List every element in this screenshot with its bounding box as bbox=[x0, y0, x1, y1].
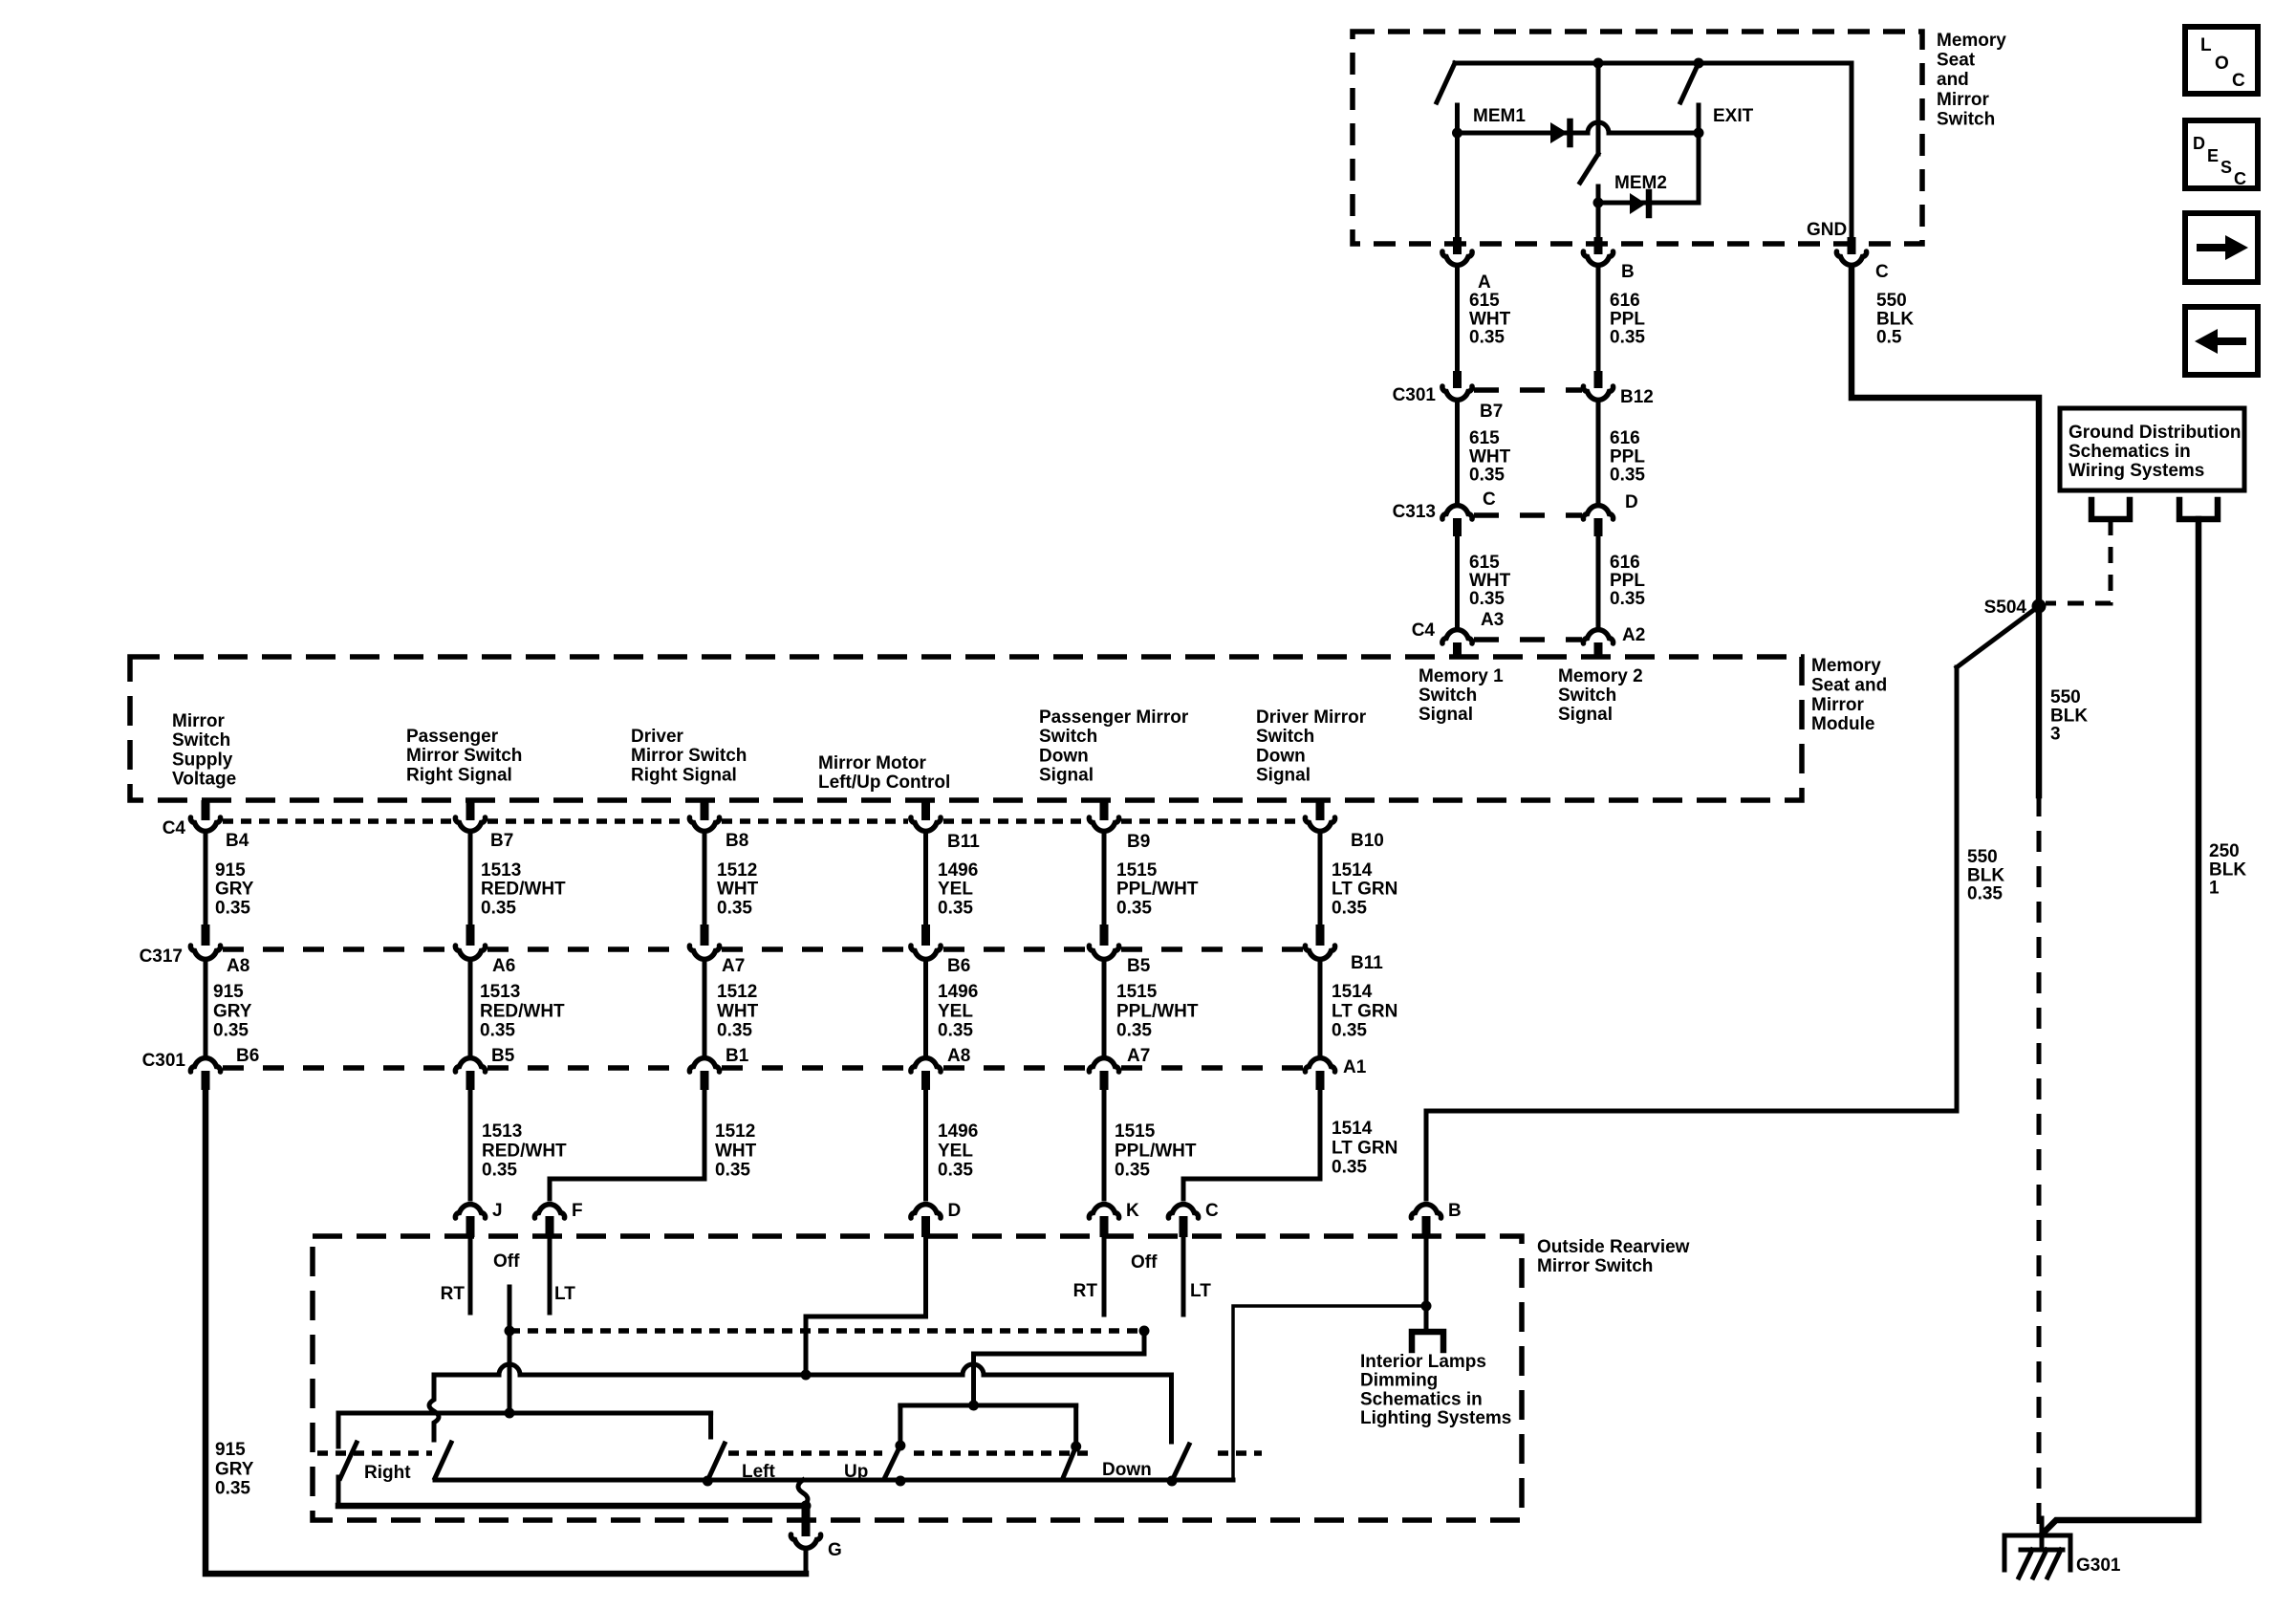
svg-text:RT: RT bbox=[1073, 1281, 1098, 1301]
svg-text:616: 616 bbox=[1610, 291, 1640, 311]
svg-text:Interior Lamps: Interior Lamps bbox=[1360, 1352, 1486, 1372]
svg-text:YEL: YEL bbox=[938, 880, 973, 900]
svg-text:PPL/WHT: PPL/WHT bbox=[1116, 1001, 1199, 1021]
connector C4 cup col3 bbox=[689, 817, 719, 831]
svg-text:Dimming: Dimming bbox=[1360, 1371, 1438, 1391]
stub above C317 col3 bbox=[701, 925, 709, 946]
connector C301 row dashes bbox=[223, 1065, 1303, 1071]
diode D2 triangle bbox=[1630, 193, 1646, 214]
node top bus junction 1 bbox=[1593, 58, 1604, 69]
svg-text:Mirror Switch: Mirror Switch bbox=[631, 746, 747, 766]
svg-text:Mirror Switch: Mirror Switch bbox=[406, 746, 522, 766]
svg-text:616: 616 bbox=[1610, 553, 1640, 573]
wire 550 BLK 0.35 to B cup bbox=[1424, 1111, 1429, 1199]
wire pin A lead bbox=[1455, 136, 1460, 239]
svg-text:1512: 1512 bbox=[717, 860, 757, 881]
svg-text:Ground Distribution: Ground Distribution bbox=[2069, 423, 2241, 443]
node MEM2 junction bbox=[1593, 198, 1604, 208]
svg-text:C4: C4 bbox=[1412, 620, 1436, 641]
svg-text:PPL: PPL bbox=[1610, 446, 1645, 467]
stub below C4-A3 bbox=[1453, 642, 1462, 659]
svg-text:C313: C313 bbox=[1393, 502, 1436, 522]
svg-text:BLK: BLK bbox=[1876, 309, 1914, 329]
diode D1 triangle bbox=[1550, 122, 1568, 143]
svg-text:MEM1: MEM1 bbox=[1473, 106, 1526, 126]
svg-text:S504: S504 bbox=[1984, 598, 2027, 618]
svg-text:PPL: PPL bbox=[1610, 571, 1645, 591]
svg-text:Signal: Signal bbox=[1558, 705, 1613, 725]
svg-text:B11: B11 bbox=[947, 832, 980, 852]
wire line A bbox=[435, 1364, 1172, 1442]
wire top bus bbox=[1455, 61, 1852, 66]
svg-text:B6: B6 bbox=[947, 956, 970, 976]
svg-text:MEM2: MEM2 bbox=[1614, 173, 1667, 193]
mech linkage Up/Down (dashed) bbox=[914, 1450, 1262, 1456]
svg-text:1496: 1496 bbox=[938, 860, 978, 881]
memory seat and mirror switch box (dashed) bbox=[1353, 32, 1922, 244]
svg-text:RED/WHT: RED/WHT bbox=[482, 1141, 567, 1161]
svg-text:E: E bbox=[2207, 146, 2219, 165]
wire line Bp right drop bbox=[1073, 1405, 1078, 1447]
svg-text:WHT: WHT bbox=[715, 1141, 757, 1161]
svg-text:0.35: 0.35 bbox=[1610, 466, 1645, 486]
svg-text:915: 915 bbox=[215, 1440, 246, 1460]
svg-text:Schematics in: Schematics in bbox=[2069, 442, 2191, 462]
wire D to line A bbox=[806, 1237, 926, 1375]
svg-text:B5: B5 bbox=[491, 1046, 515, 1066]
wire 550 BLK 0.35 horizontal to B bbox=[1426, 1109, 1957, 1114]
node Left blade dot bbox=[703, 1476, 713, 1487]
svg-text:0.35: 0.35 bbox=[1469, 328, 1505, 348]
stub below pin F bbox=[546, 1216, 554, 1237]
switch MEM2 contact stub bbox=[1596, 186, 1601, 203]
wire RT2 contact bbox=[1102, 1237, 1107, 1315]
svg-text:Left: Left bbox=[742, 1462, 776, 1482]
wire 615 WHT seg3 bbox=[1455, 536, 1460, 625]
stub below pin B bbox=[1422, 1216, 1431, 1237]
svg-text:A2: A2 bbox=[1622, 625, 1645, 645]
wire LT2 contact bbox=[1181, 1237, 1186, 1315]
svg-text:Switch: Switch bbox=[1558, 685, 1616, 706]
connector C317 cup col4 bbox=[911, 946, 941, 959]
wire col3 C4 to C317 bbox=[703, 836, 707, 925]
wire col1 C4 to C317 bbox=[204, 836, 208, 925]
right arrow nav box bbox=[2185, 213, 2258, 282]
svg-text:B4: B4 bbox=[226, 831, 249, 851]
wire col6 C4 to C317 bbox=[1318, 836, 1323, 925]
pin A stub bbox=[1453, 237, 1462, 254]
connector C313 pin D arc bbox=[1583, 506, 1613, 519]
stub below pin D bbox=[921, 1216, 930, 1237]
svg-text:YEL: YEL bbox=[938, 1141, 973, 1161]
line C common bbox=[435, 1478, 1233, 1483]
connector C301 row dashes (upper) bbox=[1474, 387, 1582, 393]
svg-text:0.35: 0.35 bbox=[1469, 589, 1505, 609]
svg-text:D: D bbox=[2193, 134, 2205, 153]
connector mirror switch pin D arc bbox=[911, 1205, 941, 1218]
pin B stub bbox=[1594, 237, 1603, 254]
switch MEM1 contact stub bbox=[1455, 105, 1460, 136]
svg-text:L: L bbox=[2200, 35, 2212, 55]
svg-text:LT GRN: LT GRN bbox=[1332, 880, 1397, 900]
svg-text:EXIT: EXIT bbox=[1713, 106, 1754, 126]
ground G301 inner bar bbox=[2021, 1548, 2063, 1553]
ground G301 center wire bbox=[2040, 1518, 2045, 1550]
wire S504 diagonal to 550 BLK 0.35 bbox=[1957, 606, 2039, 667]
svg-text:Mirror Switch: Mirror Switch bbox=[1537, 1256, 1653, 1276]
wire center vertical MEM2 feed bbox=[1596, 63, 1601, 154]
ground G301 hatch 2 bbox=[2033, 1550, 2047, 1577]
left arrow icon bbox=[2195, 329, 2246, 354]
wire line B bbox=[338, 1411, 711, 1416]
svg-text:B12: B12 bbox=[1620, 387, 1654, 407]
connector C317 cup col5 bbox=[1089, 946, 1118, 959]
connector C4 row dashes (upper) bbox=[1474, 637, 1582, 642]
node D on line A bbox=[801, 1370, 812, 1381]
wire Off1 contact bbox=[508, 1287, 512, 1413]
wiper pivot left squiggle bbox=[429, 1375, 439, 1440]
stub below C301 col2 bbox=[466, 1071, 475, 1090]
svg-text:J: J bbox=[492, 1201, 503, 1221]
svg-text:0.35: 0.35 bbox=[1332, 1158, 1367, 1178]
wire 1515 PPL/WHT to K bbox=[1102, 1090, 1107, 1199]
svg-text:A8: A8 bbox=[227, 956, 249, 976]
svg-text:and: and bbox=[1937, 70, 1969, 90]
svg-text:C: C bbox=[2232, 71, 2245, 91]
node MEM1 junction bbox=[1452, 128, 1462, 139]
svg-text:0.35: 0.35 bbox=[1967, 884, 2003, 904]
LOC nav box bbox=[2185, 27, 2258, 94]
svg-text:B11: B11 bbox=[1351, 953, 1383, 973]
svg-text:A6: A6 bbox=[492, 956, 515, 976]
wire 1514 LT GRN to C bbox=[1183, 1092, 1320, 1199]
stub module pin col5 bbox=[1100, 800, 1109, 820]
svg-text:0.35: 0.35 bbox=[938, 898, 973, 918]
switch MEM1 blade bbox=[1437, 63, 1455, 102]
node Up blade top dot bbox=[895, 1441, 905, 1451]
svg-text:0.35: 0.35 bbox=[215, 898, 250, 918]
wire 616 PPL seg1 bbox=[1596, 268, 1601, 371]
connector C301 arc col2 bbox=[455, 1058, 485, 1072]
wire col5 C4 to C317 bbox=[1102, 836, 1107, 925]
wire 915 GRY down-left run bbox=[206, 1090, 806, 1574]
wire 616 PPL seg2 bbox=[1596, 402, 1601, 502]
wire dashed bracket1 to S504 bbox=[2046, 519, 2111, 603]
connector C301 arc col1 bbox=[190, 1058, 220, 1072]
svg-text:C4: C4 bbox=[162, 818, 186, 838]
stub below C313-D bbox=[1594, 518, 1603, 536]
outside rearview mirror switch box (dashed) bbox=[313, 1236, 1522, 1520]
stub below pin J bbox=[466, 1216, 475, 1237]
svg-text:1513: 1513 bbox=[481, 860, 521, 881]
svg-text:D: D bbox=[1625, 492, 1638, 512]
wire MEM1 to EXIT (with hop) bbox=[1458, 122, 1700, 133]
mech linkage Right pair (dashed) bbox=[317, 1450, 432, 1456]
svg-text:Off: Off bbox=[493, 1251, 520, 1272]
svg-text:550: 550 bbox=[1967, 847, 1998, 867]
svg-text:D: D bbox=[948, 1201, 962, 1221]
svg-text:0.35: 0.35 bbox=[715, 1161, 750, 1181]
svg-text:1496: 1496 bbox=[938, 982, 978, 1002]
wire line C up to B wire bbox=[1233, 1306, 1426, 1480]
svg-text:Driver: Driver bbox=[631, 727, 684, 747]
connector C301 arc col5 bbox=[1089, 1058, 1118, 1072]
svg-text:B5: B5 bbox=[1127, 956, 1151, 976]
svg-text:Voltage: Voltage bbox=[172, 770, 236, 790]
connector mirror switch pin C arc bbox=[1168, 1205, 1198, 1218]
stub module pin col3 bbox=[701, 800, 709, 820]
svg-text:0.35: 0.35 bbox=[1610, 589, 1645, 609]
svg-text:Seat: Seat bbox=[1937, 51, 1976, 71]
wire LT1 contact bbox=[548, 1237, 552, 1313]
wire col6 C317 to C301 bbox=[1318, 964, 1323, 1055]
wire far left to G line bbox=[336, 1477, 341, 1506]
svg-text:B1: B1 bbox=[726, 1046, 749, 1066]
connector C317 row dashes bbox=[223, 946, 1303, 952]
wire line Bp left drop bbox=[898, 1405, 902, 1446]
connector mirror switch pin B arc bbox=[1411, 1205, 1440, 1218]
pin C stub bbox=[1848, 237, 1856, 254]
svg-text:Lighting Systems: Lighting Systems bbox=[1360, 1408, 1511, 1428]
wire col5 C317 to C301 bbox=[1102, 964, 1107, 1055]
connector C301 arc col3 bbox=[689, 1058, 719, 1072]
svg-text:BLK: BLK bbox=[2209, 859, 2246, 880]
stub below C301 col1 bbox=[202, 1071, 210, 1090]
svg-text:615: 615 bbox=[1469, 291, 1500, 311]
connector bracket 1 (to ground dist) bbox=[2091, 500, 2130, 519]
svg-text:Passenger: Passenger bbox=[406, 727, 499, 747]
svg-text:Right Signal: Right Signal bbox=[631, 765, 737, 785]
node Up on line C bbox=[896, 1476, 906, 1487]
svg-text:LT: LT bbox=[1190, 1281, 1211, 1301]
svg-text:C301: C301 bbox=[1393, 385, 1437, 405]
mech linkage select switches (dashed) bbox=[509, 1328, 1144, 1334]
stub below C301 col3 bbox=[701, 1071, 709, 1090]
svg-text:550: 550 bbox=[2050, 687, 2081, 707]
svg-text:0.35: 0.35 bbox=[1332, 1021, 1367, 1041]
svg-text:C: C bbox=[2234, 169, 2246, 188]
svg-text:C: C bbox=[1205, 1201, 1219, 1221]
ground G301 hatch 3 bbox=[2047, 1550, 2061, 1577]
svg-text:A1: A1 bbox=[1343, 1057, 1367, 1077]
mech linkage Left/Up (dashed) bbox=[728, 1450, 882, 1456]
wire GND vertical bbox=[1850, 63, 1854, 239]
svg-text:1515: 1515 bbox=[1116, 860, 1158, 881]
stub module pin col2 bbox=[466, 800, 475, 820]
stub module pin col1 bbox=[202, 800, 210, 820]
switch Up blade bbox=[884, 1446, 900, 1479]
connector C313 pin C arc bbox=[1442, 506, 1472, 519]
stub below C4-A2 bbox=[1594, 642, 1603, 659]
switch Left blade bbox=[707, 1444, 725, 1481]
connector C317 cup col1 bbox=[190, 946, 220, 959]
connector C4 pin A2 arc bbox=[1583, 630, 1613, 643]
svg-text:Module: Module bbox=[1811, 714, 1875, 734]
svg-text:G: G bbox=[828, 1540, 842, 1560]
svg-text:0.5: 0.5 bbox=[1876, 328, 1902, 348]
stub above C317 col4 bbox=[921, 925, 930, 946]
svg-text:0.35: 0.35 bbox=[215, 1479, 250, 1499]
svg-text:250: 250 bbox=[2209, 841, 2240, 861]
node Off1 mech dot bbox=[505, 1326, 515, 1337]
svg-text:0.35: 0.35 bbox=[938, 1161, 973, 1181]
diode D1 bar bbox=[1567, 121, 1573, 144]
svg-text:1512: 1512 bbox=[715, 1121, 755, 1142]
stub above C317 col1 bbox=[202, 925, 210, 946]
svg-text:550: 550 bbox=[1876, 291, 1907, 311]
svg-text:PPL/WHT: PPL/WHT bbox=[1115, 1141, 1197, 1161]
svg-text:LT GRN: LT GRN bbox=[1332, 1138, 1397, 1158]
wire 550 BLK 0.35 vertical bbox=[1955, 667, 1960, 1111]
wire 1513 RED/WHT to J bbox=[468, 1090, 473, 1199]
svg-text:Mirror Motor: Mirror Motor bbox=[818, 753, 927, 773]
svg-text:YEL: YEL bbox=[938, 1001, 973, 1021]
node Off2 on line Bp bbox=[968, 1401, 979, 1411]
connector C4 cup col1 bbox=[190, 817, 220, 831]
svg-text:0.35: 0.35 bbox=[213, 1021, 249, 1041]
ground G301 right wall bbox=[2069, 1535, 2073, 1570]
connector C317 cup col2 bbox=[455, 946, 485, 959]
wire G cup down to bottom run bbox=[804, 1551, 809, 1574]
svg-text:B7: B7 bbox=[490, 831, 513, 851]
wire 250 BLK 1 bbox=[2042, 519, 2199, 1534]
connector C4 cup col2 bbox=[455, 817, 485, 831]
svg-text:0.35: 0.35 bbox=[1115, 1161, 1150, 1181]
svg-text:Switch: Switch bbox=[1256, 727, 1314, 747]
connector bracket 2 (to ground dist) bbox=[2179, 500, 2218, 519]
ground distribution box bbox=[2060, 408, 2244, 490]
svg-text:615: 615 bbox=[1469, 553, 1500, 573]
node Off2 mech dot bbox=[1139, 1326, 1150, 1337]
svg-text:O: O bbox=[2215, 54, 2229, 74]
right arrow icon bbox=[2197, 235, 2248, 260]
svg-text:Supply: Supply bbox=[172, 750, 233, 770]
svg-text:Down: Down bbox=[1039, 746, 1089, 766]
svg-text:Switch: Switch bbox=[1419, 685, 1477, 706]
wire MEM2 diode row bbox=[1598, 201, 1699, 206]
svg-text:C317: C317 bbox=[140, 946, 183, 967]
svg-text:1514: 1514 bbox=[1332, 982, 1373, 1002]
node Off1 on line B bbox=[505, 1408, 515, 1419]
svg-text:GRY: GRY bbox=[215, 880, 254, 900]
svg-text:A8: A8 bbox=[947, 1046, 970, 1066]
svg-text:Down: Down bbox=[1102, 1460, 1152, 1480]
svg-text:Memory 1: Memory 1 bbox=[1419, 666, 1504, 686]
connector C301 arc col6 bbox=[1305, 1058, 1334, 1072]
connector mirror switch pin F arc bbox=[534, 1205, 564, 1218]
svg-text:B7: B7 bbox=[1480, 402, 1503, 422]
node on B wire bbox=[1421, 1301, 1432, 1312]
stub below pin K bbox=[1100, 1216, 1109, 1237]
svg-text:Signal: Signal bbox=[1256, 766, 1310, 786]
connector C301 pin B12 cup bbox=[1583, 386, 1613, 400]
switch blade far left bbox=[340, 1443, 357, 1478]
svg-text:Memory: Memory bbox=[1937, 31, 2006, 51]
connector pin B cup bbox=[1583, 251, 1613, 265]
svg-text:S: S bbox=[2220, 158, 2232, 177]
svg-text:BLK: BLK bbox=[1967, 865, 2004, 885]
wire G line bbox=[338, 1503, 806, 1510]
connector C313 row dashes bbox=[1474, 512, 1582, 518]
svg-text:A7: A7 bbox=[722, 956, 745, 976]
switch Down right blade bbox=[1172, 1445, 1189, 1481]
connector C317 cup col6 bbox=[1305, 946, 1334, 959]
svg-text:0.35: 0.35 bbox=[938, 1021, 973, 1041]
splice S504 dot bbox=[2032, 599, 2047, 614]
svg-text:1514: 1514 bbox=[1332, 1119, 1373, 1139]
wire col1 C317 to C301 bbox=[204, 964, 208, 1055]
connector C4 cup col4 bbox=[911, 817, 941, 831]
svg-text:1513: 1513 bbox=[482, 1121, 522, 1142]
stub module pin col4 bbox=[921, 800, 930, 820]
svg-text:Wiring Systems: Wiring Systems bbox=[2069, 461, 2204, 481]
svg-text:GND: GND bbox=[1807, 220, 1847, 240]
svg-text:A7: A7 bbox=[1127, 1046, 1150, 1066]
svg-text:1513: 1513 bbox=[480, 982, 520, 1002]
svg-text:Down: Down bbox=[1256, 746, 1306, 766]
svg-text:0.35: 0.35 bbox=[717, 1021, 752, 1041]
svg-text:C301: C301 bbox=[142, 1051, 186, 1071]
svg-text:Signal: Signal bbox=[1419, 705, 1473, 725]
node top bus junction 2 bbox=[1694, 58, 1704, 69]
svg-text:Mirror: Mirror bbox=[172, 711, 226, 731]
stub above C301-B7 bbox=[1453, 371, 1462, 388]
wire 615 WHT seg1 bbox=[1455, 268, 1460, 371]
connector C317 cup col3 bbox=[689, 946, 719, 959]
wire 550 BLK 0.5 bbox=[1852, 268, 2039, 606]
wire 550 BLK 3 solid part bbox=[2036, 606, 2043, 795]
wire RT1 contact bbox=[468, 1237, 473, 1313]
switch MEM2 blade bbox=[1580, 154, 1598, 183]
connector pin C cup bbox=[1836, 251, 1866, 265]
svg-text:Mirror: Mirror bbox=[1937, 90, 1990, 110]
svg-text:0.35: 0.35 bbox=[1332, 898, 1367, 918]
svg-text:915: 915 bbox=[215, 860, 246, 881]
svg-text:G301: G301 bbox=[2076, 1556, 2121, 1576]
svg-text:1515: 1515 bbox=[1116, 982, 1158, 1002]
svg-text:BLK: BLK bbox=[2050, 706, 2088, 726]
stub below C301 col5 bbox=[1100, 1071, 1109, 1090]
left arrow nav box bbox=[2185, 307, 2258, 375]
svg-text:Switch: Switch bbox=[172, 730, 230, 751]
svg-text:Memory: Memory bbox=[1811, 656, 1881, 676]
connector pin A cup bbox=[1442, 251, 1472, 265]
stub above C317 col6 bbox=[1316, 925, 1325, 946]
stub above C317 col5 bbox=[1100, 925, 1109, 946]
svg-text:615: 615 bbox=[1469, 428, 1500, 448]
svg-text:Passenger Mirror: Passenger Mirror bbox=[1039, 707, 1189, 728]
svg-text:B9: B9 bbox=[1127, 832, 1150, 852]
svg-text:C: C bbox=[1875, 262, 1889, 282]
svg-text:WHT: WHT bbox=[1469, 571, 1511, 591]
svg-text:Off: Off bbox=[1131, 1252, 1158, 1273]
svg-text:F: F bbox=[572, 1201, 583, 1221]
wire col2 C4 to C317 bbox=[468, 836, 473, 925]
svg-text:PPL: PPL bbox=[1610, 309, 1645, 329]
wire line B right drop bbox=[708, 1413, 713, 1437]
connector C4 row dashes bbox=[223, 818, 1303, 824]
svg-text:1514: 1514 bbox=[1332, 860, 1373, 881]
wire 1496 YEL to D bbox=[923, 1090, 928, 1199]
connector C4 pin A3 arc bbox=[1442, 630, 1472, 643]
svg-text:0.35: 0.35 bbox=[482, 1161, 517, 1181]
svg-text:Memory 2: Memory 2 bbox=[1558, 666, 1643, 686]
connector mirror switch pin J arc bbox=[455, 1205, 485, 1218]
stub below C313-C bbox=[1453, 518, 1462, 536]
svg-text:B10: B10 bbox=[1351, 831, 1384, 851]
wire 615 WHT seg2 bbox=[1455, 402, 1460, 502]
svg-text:Right: Right bbox=[364, 1463, 411, 1483]
